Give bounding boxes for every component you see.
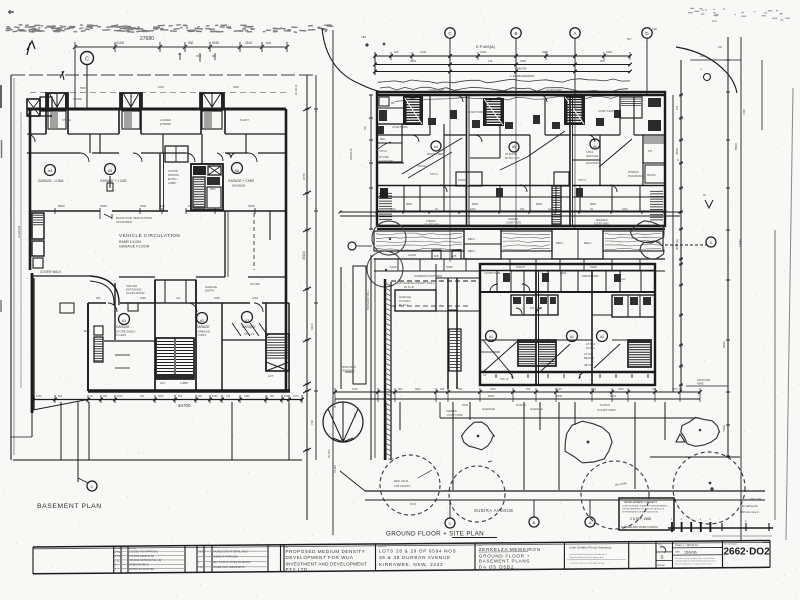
svg-text:900: 900 bbox=[270, 395, 275, 398]
svg-text:150: 150 bbox=[178, 395, 183, 398]
svg-text:COURTYARD: COURTYARD bbox=[594, 223, 609, 226]
svg-text:GARAGE: GARAGE bbox=[196, 325, 210, 329]
svg-text:those in preference to scaling: those in preference to scaling of the co… bbox=[675, 562, 712, 565]
svg-text:LOBBY: LOBBY bbox=[180, 381, 189, 385]
svg-text:BED2: BED2 bbox=[560, 272, 567, 275]
svg-text:LIFT: LIFT bbox=[160, 381, 166, 385]
svg-text:GLASS DOOR: GLASS DOOR bbox=[126, 291, 145, 295]
svg-text:DA O5 O5B2: DA O5 O5B2 bbox=[479, 564, 515, 569]
svg-text:ARRANGE: ARRANGE bbox=[586, 155, 599, 158]
svg-text:COURTYARD: COURTYARD bbox=[379, 160, 394, 163]
svg-text:CONDITIONS AND STAMPED PLANS A: CONDITIONS AND STAMPED PLANS AS AMEND bbox=[622, 505, 668, 508]
svg-text:TOP 13: TOP 13 bbox=[500, 378, 509, 381]
svg-text:corresponding work figured dim: corresponding work figured dimensions wi… bbox=[675, 560, 716, 563]
svg-text:BASEMENT PLANS: BASEMENT PLANS bbox=[479, 559, 530, 564]
svg-text:DINING: DINING bbox=[418, 165, 427, 168]
svg-text:5220: 5220 bbox=[158, 395, 164, 398]
svg-text:DEVELOPMENT CONSENT: DEVELOPMENT CONSENT bbox=[624, 500, 657, 504]
svg-text:PTY LTD: PTY LTD bbox=[286, 567, 308, 572]
svg-text:Denver: Denver bbox=[658, 564, 666, 567]
svg-text:C: C bbox=[449, 521, 452, 526]
svg-text:#2: #2 bbox=[570, 335, 574, 339]
svg-text:BOUNDARY WALL: BOUNDARY WALL bbox=[367, 289, 370, 310]
svg-text:600: 600 bbox=[58, 395, 63, 398]
svg-text:5150: 5150 bbox=[212, 395, 218, 398]
svg-text:5100: 5100 bbox=[100, 204, 107, 208]
svg-text:ENTRY+: ENTRY+ bbox=[168, 178, 178, 181]
svg-text:BIKE: BIKE bbox=[84, 330, 90, 333]
svg-text:9600: 9600 bbox=[354, 412, 357, 418]
svg-text:45.05 DC: 45.05 DC bbox=[516, 404, 526, 407]
svg-text:BED/DIN: BED/DIN bbox=[584, 357, 594, 360]
svg-text:160: 160 bbox=[700, 55, 705, 58]
svg-text:UP: UP bbox=[483, 374, 487, 377]
svg-text:A B1/4: A B1/4 bbox=[586, 151, 594, 154]
svg-text:AMEND: AMEND bbox=[129, 547, 137, 550]
svg-text:2160: 2160 bbox=[244, 395, 250, 398]
svg-text:8500: 8500 bbox=[734, 143, 738, 150]
svg-text:ZERKELZA MEMSIRON: ZERKELZA MEMSIRON bbox=[479, 547, 541, 552]
svg-text:COURTYARD: COURTYARD bbox=[392, 126, 408, 129]
svg-text:2100: 2100 bbox=[480, 50, 487, 54]
svg-text:140: 140 bbox=[488, 59, 493, 63]
svg-text:COURTYARD: COURTYARD bbox=[506, 222, 521, 225]
svg-text:PARKING: PARKING bbox=[168, 174, 179, 177]
svg-text:COURTYARD: COURTYARD bbox=[468, 111, 484, 114]
svg-text:900: 900 bbox=[458, 388, 463, 391]
svg-text:5310: 5310 bbox=[610, 394, 617, 398]
svg-text:VEHICLE CIRCULATION: VEHICLE CIRCULATION bbox=[119, 233, 180, 238]
svg-text:GARB.RM: GARB.RM bbox=[17, 226, 21, 238]
svg-text:1370: 1370 bbox=[36, 395, 42, 398]
svg-text:LOCKER: LOCKER bbox=[160, 118, 171, 122]
svg-text:1570: 1570 bbox=[293, 395, 299, 398]
svg-text:#1: #1 bbox=[122, 318, 127, 323]
svg-text:GARAGE FLOOR: GARAGE FLOOR bbox=[119, 245, 150, 249]
svg-text:LAWN: LAWN bbox=[408, 253, 416, 257]
svg-text:4200: 4200 bbox=[470, 208, 476, 211]
svg-text:5100: 5100 bbox=[158, 85, 164, 89]
svg-text:BASM B.F.E ADOPTED: BASM B.F.E ADOPTED bbox=[129, 568, 155, 571]
svg-text:8680: 8680 bbox=[722, 341, 726, 348]
svg-text:GARAGE + 1 CAR: GARAGE + 1 CAR bbox=[100, 179, 127, 183]
svg-text:ISSUED DWG AMENDMENTS: ISSUED DWG AMENDMENTS bbox=[213, 566, 245, 569]
svg-text:4550 (w): 4550 (w) bbox=[675, 239, 679, 250]
svg-text:4200: 4200 bbox=[548, 208, 554, 211]
svg-text:3600: 3600 bbox=[415, 388, 421, 391]
svg-text:TERR: TERR bbox=[590, 266, 597, 269]
svg-text:ENTRY: ENTRY bbox=[205, 289, 215, 293]
svg-text:900: 900 bbox=[592, 388, 597, 391]
svg-text:150: 150 bbox=[520, 208, 525, 211]
svg-text:Job & Dwg No: Job & Dwg No bbox=[724, 543, 738, 545]
svg-text:150: 150 bbox=[675, 105, 679, 110]
svg-text:2100: 2100 bbox=[116, 41, 124, 45]
svg-text:12040: 12040 bbox=[738, 239, 742, 247]
svg-text:2662·DO2: 2662·DO2 bbox=[724, 546, 771, 557]
svg-text:GARAGE - LOMA: GARAGE - LOMA bbox=[38, 179, 64, 183]
svg-text:45/40: 45/40 bbox=[462, 404, 469, 407]
svg-text:6400: 6400 bbox=[188, 204, 195, 208]
svg-text:PROPOSED: PROPOSED bbox=[341, 365, 356, 369]
svg-text:2100: 2100 bbox=[252, 296, 258, 300]
svg-text:#5: #5 bbox=[512, 145, 516, 149]
svg-text:#5: #5 bbox=[108, 168, 113, 173]
svg-text:45.80: 45.80 bbox=[410, 503, 417, 506]
svg-text:T. 02 9531 44 F. 02 31 47: T. 02 9531 44 F. 02 31 47 ABN 355 34 bbox=[569, 562, 605, 565]
svg-text:COURTYARD: COURTYARD bbox=[597, 408, 617, 412]
svg-text:10.4: 10.4 bbox=[712, 20, 717, 23]
svg-text:DETERMINATION OF APPLICATION N: DETERMINATION OF APPLICATION No bbox=[622, 511, 659, 514]
svg-text:WF: WF bbox=[391, 102, 395, 105]
svg-text:1100: 1100 bbox=[117, 395, 123, 398]
svg-text:15/9/96: 15/9/96 bbox=[684, 550, 697, 554]
svg-text:#6: #6 bbox=[235, 168, 240, 173]
svg-text:7490: 7490 bbox=[722, 425, 726, 432]
svg-text:TRUE/DINING: TRUE/DINING bbox=[628, 176, 643, 178]
svg-text:50.11%: 50.11% bbox=[327, 449, 331, 458]
svg-text:STORE: STORE bbox=[73, 97, 82, 101]
svg-text:3980: 3980 bbox=[520, 59, 527, 63]
svg-text:5190: 5190 bbox=[212, 41, 219, 45]
svg-text:A: A bbox=[573, 31, 576, 36]
svg-text:507: 507 bbox=[627, 37, 632, 41]
svg-text:RM into Gra.b: RM into Gra.b bbox=[740, 510, 759, 514]
svg-text:140: 140 bbox=[226, 395, 231, 398]
svg-text:1500: 1500 bbox=[140, 204, 147, 208]
svg-text:STORE: STORE bbox=[250, 282, 260, 286]
svg-text:WINDOWS REV D: WINDOWS REV D bbox=[129, 564, 149, 567]
svg-text:B 9.98: B 9.98 bbox=[115, 555, 123, 558]
svg-text:EASY/RATIO: EASY/RATIO bbox=[586, 162, 600, 165]
svg-text:45.05 DC: 45.05 DC bbox=[600, 404, 610, 407]
svg-text:STALLS: STALLS bbox=[244, 332, 254, 336]
svg-text:4550: 4550 bbox=[675, 148, 679, 155]
svg-text:D: D bbox=[710, 240, 713, 245]
svg-text:D: D bbox=[115, 564, 117, 567]
svg-text:MASON: MASON bbox=[647, 174, 656, 177]
svg-text:A: A bbox=[589, 520, 592, 525]
svg-text:Date: Date bbox=[675, 550, 681, 553]
svg-text:BED3: BED3 bbox=[590, 203, 597, 206]
svg-text:3600/4.20: 3600/4.20 bbox=[349, 148, 353, 160]
svg-text:COURTYARD: COURTYARD bbox=[598, 110, 614, 113]
svg-text:150: 150 bbox=[440, 388, 445, 391]
svg-text:(DOUBLE): (DOUBLE) bbox=[232, 184, 245, 188]
svg-text:AMEND AT APPROVED: AMEND AT APPROVED bbox=[213, 556, 238, 559]
svg-text:TOP 13: TOP 13 bbox=[379, 151, 388, 153]
svg-text:#1: #1 bbox=[489, 335, 493, 339]
svg-text:4G: 4G bbox=[590, 208, 593, 211]
svg-text:LODGED FOR APPROVAL: LODGED FOR APPROVAL bbox=[129, 551, 159, 554]
svg-text:ABV/P: ABV/P bbox=[584, 364, 592, 367]
svg-text:1560: 1560 bbox=[742, 109, 746, 115]
svg-text:500: 500 bbox=[266, 41, 271, 45]
svg-text:160: 160 bbox=[718, 46, 723, 49]
svg-text:RL 41.30: RL 41.30 bbox=[404, 286, 415, 289]
svg-text:2 9.11: 2 9.11 bbox=[198, 566, 205, 569]
svg-text:COUNCIL NOTES B PLN (+8): COUNCIL NOTES B PLN (+8) bbox=[129, 559, 161, 562]
svg-text:C: C bbox=[85, 57, 89, 63]
svg-text:LOTS 28 & 29 DP 6594 NOS: LOTS 28 & 29 DP 6594 NOS bbox=[379, 548, 456, 553]
svg-text:2100: 2100 bbox=[245, 41, 252, 45]
svg-text:1370: 1370 bbox=[352, 388, 358, 391]
svg-text:GAS/ELE DWG AT DETAIL SALE: GAS/ELE DWG AT DETAIL SALE bbox=[213, 550, 248, 553]
svg-text:GARAGE: GARAGE bbox=[482, 407, 495, 411]
svg-text:36 & 38 DURBAR AVENUE: 36 & 38 DURBAR AVENUE bbox=[379, 555, 451, 560]
svg-text:BED1: BED1 bbox=[468, 249, 475, 253]
svg-text:GARDEN/COURTYARD: GARDEN/COURTYARD bbox=[414, 274, 442, 278]
svg-text:GARAGE: GARAGE bbox=[530, 407, 543, 411]
svg-text:#4: #4 bbox=[434, 145, 438, 149]
svg-text:WTRPRF: WTRPRF bbox=[160, 122, 172, 126]
svg-text:#6: #6 bbox=[593, 145, 597, 149]
svg-text:LOBBY: LOBBY bbox=[168, 182, 177, 185]
svg-text:TERR: TERR bbox=[446, 266, 453, 269]
svg-text:5310: 5310 bbox=[490, 388, 496, 391]
svg-text:730: 730 bbox=[310, 420, 314, 425]
svg-text:Licensed Build Design For Sale: Licensed Build Design For Sale Architect bbox=[569, 553, 607, 556]
svg-text:GARAGE: GARAGE bbox=[242, 325, 256, 329]
svg-text:No DATE: No DATE bbox=[115, 547, 124, 550]
svg-text:500: 500 bbox=[188, 41, 194, 45]
svg-text:5310: 5310 bbox=[556, 388, 562, 391]
svg-text:TOP 13: TOP 13 bbox=[578, 180, 587, 182]
svg-text:1870: 1870 bbox=[302, 173, 306, 180]
svg-text:#3: #3 bbox=[600, 335, 604, 339]
svg-text:GROUND FLOOR + SITE PLAN: GROUND FLOOR + SITE PLAN bbox=[386, 531, 484, 538]
svg-text:5400: 5400 bbox=[214, 296, 220, 300]
svg-text:27680: 27680 bbox=[140, 36, 154, 42]
svg-text:4G: 4G bbox=[435, 208, 438, 211]
svg-text:COURTYARD: COURTYARD bbox=[546, 89, 562, 92]
svg-text:5500: 5500 bbox=[80, 86, 86, 90]
svg-text:Remarks to sheet of dimension: Remarks to sheet of dimension on the bft… bbox=[675, 557, 716, 560]
svg-text:4x0 3550: 4x0 3550 bbox=[530, 307, 541, 310]
svg-text:RAMP 1:5,000: RAMP 1:5,000 bbox=[119, 240, 141, 244]
svg-text:748: 748 bbox=[361, 35, 366, 39]
svg-text:COVER WALK: COVER WALK bbox=[40, 270, 62, 274]
svg-text:150: 150 bbox=[160, 204, 165, 208]
svg-text:VISITOR: VISITOR bbox=[168, 170, 178, 173]
svg-text:SUBIRA AVENUE: SUBIRA AVENUE bbox=[474, 508, 514, 513]
svg-text:AT ROOM: AT ROOM bbox=[505, 152, 517, 156]
svg-text:4x0: 4x0 bbox=[176, 296, 181, 300]
svg-text:3980/365: 3980/365 bbox=[516, 67, 527, 71]
svg-text:4950: 4950 bbox=[410, 59, 417, 63]
svg-text:34700: 34700 bbox=[178, 403, 191, 408]
svg-text:90.11%: 90.11% bbox=[334, 399, 337, 408]
svg-text:WINDOW: WINDOW bbox=[628, 171, 639, 174]
svg-text:LIVING: LIVING bbox=[586, 346, 595, 350]
svg-text:900: 900 bbox=[398, 388, 403, 391]
svg-text:5150: 5150 bbox=[248, 204, 255, 208]
svg-text:45.02: 45.02 bbox=[388, 458, 395, 461]
svg-text:TERR: TERR bbox=[390, 266, 397, 269]
svg-text:10M SIDE BOUNDARY WALL: 10M SIDE BOUNDARY WALL bbox=[397, 281, 435, 285]
svg-text:5310: 5310 bbox=[618, 388, 624, 391]
svg-text:PRESS/YARD: PRESS/YARD bbox=[582, 274, 599, 278]
svg-text:KITCHEN: KITCHEN bbox=[379, 157, 389, 159]
svg-text:BED1: BED1 bbox=[584, 241, 591, 245]
svg-text:ON ROOFS: ON ROOFS bbox=[116, 220, 132, 224]
svg-text:#2: #2 bbox=[200, 318, 205, 323]
svg-text:12M CANOPY: 12M CANOPY bbox=[394, 484, 411, 488]
svg-text:LIFT: LIFT bbox=[268, 374, 274, 378]
svg-text:B: B bbox=[533, 520, 536, 525]
svg-text:BASEMENT PLAN: BASEMENT PLAN bbox=[37, 503, 102, 510]
svg-text:THOSE REFERRED TO IN NOTIFICAT: THOSE REFERRED TO IN NOTIFICATION OF bbox=[622, 508, 665, 511]
svg-text:1590: 1590 bbox=[556, 394, 563, 398]
svg-text:950: 950 bbox=[600, 59, 605, 63]
svg-text:COURTYARD: COURTYARD bbox=[447, 414, 463, 417]
svg-text:76110: 76110 bbox=[333, 465, 337, 473]
svg-text:1800: 1800 bbox=[140, 296, 146, 300]
svg-text:MER. PALM: MER. PALM bbox=[394, 479, 408, 483]
svg-text:TOP 13: TOP 13 bbox=[430, 174, 439, 176]
svg-text:BED3: BED3 bbox=[472, 203, 479, 206]
svg-text:GARDEN: GARDEN bbox=[446, 410, 457, 413]
svg-text:COURTYARD: COURTYARD bbox=[428, 88, 444, 92]
svg-text:INVESTMENT AND DEVELOPMENT: INVESTMENT AND DEVELOPMENT bbox=[286, 561, 367, 566]
svg-text:4200: 4200 bbox=[622, 208, 628, 211]
svg-text:COUNCIL AMND PLAN: COUNCIL AMND PLAN bbox=[129, 555, 154, 558]
svg-text:2100: 2100 bbox=[420, 50, 427, 54]
svg-text:GARAGE: GARAGE bbox=[399, 295, 411, 299]
svg-text:2 CARS: 2 CARS bbox=[196, 333, 206, 337]
svg-text:SUTHERLAND SHIRE COUNCIL: SUTHERLAND SHIRE COUNCIL bbox=[621, 526, 659, 529]
svg-text:150: 150 bbox=[526, 388, 531, 391]
svg-text:B+/G: B+/G bbox=[620, 278, 626, 281]
svg-text:→ 2 KG GN: → 2 KG GN bbox=[745, 497, 761, 501]
svg-text:RL 39.4: RL 39.4 bbox=[399, 304, 408, 307]
svg-text:LITTLE: LITTLE bbox=[584, 353, 593, 356]
svg-text:W.B: W.B bbox=[434, 255, 439, 258]
svg-text:BED1: BED1 bbox=[556, 241, 563, 245]
svg-text:A 5.9.8: A 5.9.8 bbox=[115, 551, 123, 554]
svg-text:150: 150 bbox=[284, 395, 289, 398]
svg-text:900: 900 bbox=[96, 296, 101, 300]
svg-text:HERE: HERE bbox=[697, 383, 704, 386]
svg-text:900: 900 bbox=[198, 395, 203, 398]
svg-text:2160: 2160 bbox=[606, 50, 613, 54]
svg-text:4200: 4200 bbox=[390, 208, 396, 211]
svg-text:PORCH: PORCH bbox=[458, 180, 467, 182]
svg-text:Registered Architects No Sydn: Registered Architects No Sydney Aust bbox=[569, 556, 604, 559]
svg-text:Dnna5(a 23: Dnna5(a 23 bbox=[742, 504, 758, 508]
svg-text:900: 900 bbox=[103, 395, 108, 398]
svg-text:5500: 5500 bbox=[58, 204, 65, 208]
svg-text:26110: 26110 bbox=[302, 251, 306, 260]
svg-text:PROPOSED MEDIUM DENSITY: PROPOSED MEDIUM DENSITY bbox=[286, 549, 366, 554]
svg-text:B: B bbox=[660, 554, 663, 559]
svg-text:BRICK V.BED: BRICK V.BED bbox=[427, 152, 443, 156]
svg-text:COURTYARD: COURTYARD bbox=[484, 271, 500, 275]
svg-text:150: 150 bbox=[140, 395, 145, 398]
svg-text:6110: 6110 bbox=[310, 323, 314, 330]
svg-text:GARAGE + CARS: GARAGE + CARS bbox=[228, 179, 254, 183]
svg-text:COURTYARD: COURTYARD bbox=[424, 224, 439, 227]
svg-text:GROUND FLOOR +: GROUND FLOOR + bbox=[479, 553, 530, 558]
svg-text:#3: #3 bbox=[245, 318, 250, 323]
svg-text:AT B1/4: AT B1/4 bbox=[586, 342, 596, 346]
svg-text:BED: BED bbox=[380, 138, 385, 141]
svg-text:RL 49.10: RL 49.10 bbox=[294, 84, 298, 95]
svg-text:PLANT: PLANT bbox=[240, 118, 249, 122]
svg-text:AT DOM 2: AT DOM 2 bbox=[399, 300, 411, 303]
svg-text:Scale 1 : 100 @ A1: Scale 1 : 100 @ A1 bbox=[675, 543, 699, 547]
svg-text:Colin Griffiths Punch Archi: Colin Griffiths Punch Architects bbox=[569, 545, 612, 549]
svg-text:1:100/BASEMENT: 1:100/BASEMENT bbox=[510, 74, 535, 78]
svg-text:BED1: BED1 bbox=[468, 237, 475, 241]
svg-text:DEVELOPMENT FOR WUA: DEVELOPMENT FOR WUA bbox=[286, 555, 354, 560]
svg-text:B: B bbox=[514, 31, 517, 36]
svg-text:BED3: BED3 bbox=[536, 203, 543, 206]
svg-text:4450: 4450 bbox=[542, 50, 549, 54]
svg-text:PORCH: PORCH bbox=[516, 266, 525, 269]
svg-text:C 11.8: C 11.8 bbox=[115, 559, 123, 562]
svg-text:5500: 5500 bbox=[233, 85, 239, 89]
svg-text:KIRRAWEE, NSW, 2232: KIRRAWEE, NSW, 2232 bbox=[379, 562, 443, 567]
svg-text:C: C bbox=[91, 484, 94, 489]
svg-text:W.B: W.B bbox=[452, 255, 457, 258]
svg-text:4x0: 4x0 bbox=[364, 125, 367, 130]
svg-text:REV COUNCIL NOTES RE-DESIGN: REV COUNCIL NOTES RE-DESIGN bbox=[213, 562, 251, 564]
svg-text:KIT: KIT bbox=[648, 149, 652, 153]
svg-text:ENTRY AT/O: ENTRY AT/O bbox=[505, 157, 520, 160]
svg-text:900: 900 bbox=[394, 50, 399, 54]
svg-text:PWD: PWD bbox=[210, 189, 216, 191]
svg-text:5 9.0.8: 5 9.0.8 bbox=[198, 551, 206, 554]
svg-text:STORE: STORE bbox=[62, 118, 71, 122]
svg-text:150: 150 bbox=[196, 54, 201, 58]
svg-text:748: 748 bbox=[652, 27, 657, 31]
svg-text:BED3: BED3 bbox=[406, 203, 413, 206]
svg-text:5310: 5310 bbox=[488, 394, 495, 398]
svg-text:2 6 SEP 1988: 2 6 SEP 1988 bbox=[630, 517, 651, 521]
svg-text:E.P.469(A): E.P.469(A) bbox=[476, 44, 496, 49]
svg-text:#4: #4 bbox=[48, 168, 53, 173]
svg-text:150: 150 bbox=[652, 388, 657, 391]
svg-text:2 CARS: 2 CARS bbox=[116, 333, 126, 337]
svg-text:GARAGE: GARAGE bbox=[116, 325, 130, 329]
